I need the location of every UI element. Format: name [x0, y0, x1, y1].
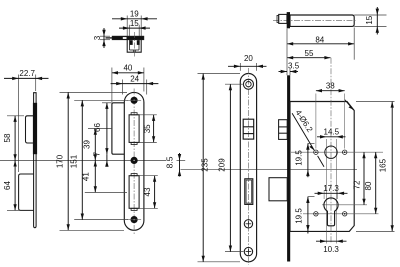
lock case outline — [290, 102, 354, 232]
svg-text:17.3: 17.3 — [323, 184, 339, 193]
svg-text:58: 58 — [3, 133, 12, 142]
dim 40 extension lines — [111, 68, 113, 103]
dim 8.5 — [165, 153, 182, 177]
deadbolt (side) — [269, 178, 287, 201]
case bar (top view) — [290, 15, 354, 26]
lock faceplate outline (stadium) — [240, 74, 256, 262]
svg-text:40: 40 — [123, 63, 132, 72]
dim 20 — [228, 54, 267, 68]
hub row centerline — [291, 151, 383, 153]
screw hole 3 — [127, 216, 141, 223]
screw hole 2 — [131, 157, 138, 164]
svg-text:209: 209 — [218, 158, 227, 172]
dim 15 extension lines — [128, 25, 130, 36]
dim 165 — [378, 102, 392, 232]
dim 39 — [83, 129, 96, 161]
dim 170 extension lines — [60, 91, 128, 93]
svg-text:14.5: 14.5 — [324, 127, 340, 136]
latch bolt (side) — [279, 120, 288, 140]
fixing hole top-right — [343, 150, 347, 154]
fixing hole bottom-right — [343, 212, 347, 216]
dim 64 extension line — [7, 209, 20, 211]
svg-text:39: 39 — [83, 140, 92, 149]
dim 165 extension lines — [356, 101, 395, 103]
latch pocket box (side) — [26, 116, 34, 143]
svg-text:43: 43 — [143, 187, 152, 196]
fixing hole bottom-left — [314, 212, 318, 216]
latch tip (bar) — [277, 14, 287, 23]
svg-text:19.5: 19.5 — [295, 150, 304, 166]
dim 22.7 extension lines — [18, 75, 20, 173]
dim 3 — [93, 28, 106, 48]
faceplate strip (side) — [287, 75, 290, 261]
dim 151 — [70, 100, 83, 219]
latch opening — [129, 115, 139, 143]
dim 38 — [316, 81, 345, 90]
svg-text:38: 38 — [326, 81, 335, 90]
dim 17.3 extension lines — [323, 191, 325, 199]
dim 58 extension lines — [7, 115, 24, 117]
svg-text:64: 64 — [3, 181, 12, 190]
screw hole 1 — [127, 97, 141, 104]
dim 22.7 — [4, 69, 49, 80]
screw hole bottom 2 — [244, 247, 252, 255]
dim 58 — [3, 116, 15, 161]
chamfer arrow — [345, 100, 354, 110]
svg-text:15: 15 — [130, 19, 139, 28]
dim 35 extension lines — [139, 114, 157, 116]
dim 209 — [218, 84, 231, 251]
datum line lock (handle height) — [181, 169, 358, 171]
svg-text:20: 20 — [244, 54, 253, 63]
bar centerline — [273, 20, 356, 22]
dim 19 — [112, 10, 157, 21]
cylinder row line — [322, 204, 367, 206]
dim 55 — [287, 49, 330, 58]
dim 64 — [3, 160, 15, 210]
dim 24 — [111, 74, 159, 85]
dust box cup (top view) — [127, 40, 141, 53]
dim 17.3 — [315, 184, 348, 195]
dim 84 extension line right — [353, 28, 355, 60]
lower holes row line — [303, 213, 379, 215]
dim 20 extension lines — [239, 63, 241, 71]
svg-text:151: 151 — [70, 154, 79, 168]
dim 41 — [82, 160, 96, 192]
dim 84 — [287, 35, 354, 44]
svg-text:41: 41 — [82, 172, 91, 181]
svg-text:15: 15 — [365, 15, 374, 24]
deadbolt pocket box (side) — [19, 174, 34, 210]
fixing hole top-left — [314, 150, 318, 154]
dim 80 — [364, 152, 376, 214]
dim 15 (case) — [365, 7, 379, 35]
dust box tabs — [130, 40, 133, 45]
dim 19 extension lines — [126, 16, 128, 37]
dim 209 extension lines — [225, 83, 244, 85]
dim 43 — [143, 176, 155, 209]
dim 39 extension line — [88, 128, 112, 130]
dim 10.3 — [316, 240, 347, 254]
euro cylinder hole — [324, 198, 338, 226]
svg-text:84: 84 — [315, 35, 324, 44]
svg-text:24: 24 — [130, 74, 139, 83]
svg-text:165: 165 — [378, 158, 387, 172]
latch bolt in opening (front) — [243, 119, 254, 139]
dim 19.5 upper — [295, 143, 315, 177]
svg-text:66: 66 — [93, 123, 102, 132]
dim 3.5 — [279, 29, 300, 76]
dim 43 extension lines — [139, 175, 158, 177]
dim 38 extension lines — [315, 94, 317, 149]
dim 15 — [119, 19, 150, 30]
svg-text:19: 19 — [130, 10, 139, 19]
faceplate end (bar) — [287, 12, 290, 28]
strike lip front — [112, 103, 124, 154]
svg-text:170: 170 — [55, 154, 64, 168]
svg-text:7: 7 — [92, 151, 101, 156]
dim 14.5 — [317, 127, 346, 138]
svg-text:35: 35 — [143, 124, 152, 133]
screw hole bottom 1 — [244, 220, 252, 228]
datum line strike (through middle screw hole) — [0, 159, 166, 161]
centerline top view — [133, 32, 135, 57]
strike plate bar (top view) — [112, 36, 144, 40]
top hole — [243, 79, 253, 89]
deadbolt opening — [129, 176, 139, 209]
strike lip edge-on (dark) — [33, 103, 37, 154]
svg-text:22.7: 22.7 — [19, 69, 35, 78]
dim 24 extension line — [122, 80, 124, 95]
strike plate outline (stadium) — [124, 92, 144, 230]
svg-text:72: 72 — [352, 180, 361, 189]
dim 3 extension lines — [100, 35, 110, 37]
centerline — [247, 68, 249, 265]
svg-text:10.3: 10.3 — [323, 245, 339, 254]
strike lip (top view) — [106, 37, 113, 38]
svg-text:3: 3 — [93, 35, 102, 40]
strike plate side profile — [34, 93, 37, 228]
dim 235 — [200, 74, 209, 262]
14.5/10.3 long extension lines — [325, 139, 327, 244]
dim 40 — [112, 63, 144, 72]
dim 72 — [352, 152, 364, 205]
dim 19.5 lower — [295, 197, 315, 234]
dim 41 extension line — [85, 191, 127, 193]
svg-text:235: 235 — [200, 158, 209, 172]
svg-text:8.5: 8.5 — [165, 156, 175, 168]
dim 66 extension line — [102, 102, 112, 104]
leader 4-6.2 — [292, 108, 324, 166]
svg-text:55: 55 — [305, 49, 314, 58]
dim 7 — [92, 151, 108, 166]
dim 151 extension lines — [74, 99, 128, 101]
svg-text:19.5: 19.5 — [295, 208, 304, 224]
centerline — [133, 89, 135, 235]
dim 66 — [93, 103, 107, 154]
dim 15 (case height) extension lines — [354, 14, 386, 16]
dim 235 extension lines — [198, 73, 241, 75]
svg-text:3.5: 3.5 — [288, 62, 300, 71]
deadbolt opening (front) — [245, 179, 253, 205]
dim 35 — [143, 115, 153, 143]
svg-text:80: 80 — [364, 181, 373, 190]
dim 170 — [55, 92, 68, 230]
follower hub — [325, 146, 337, 158]
vertical centerline hub/cylinder — [330, 58, 332, 244]
